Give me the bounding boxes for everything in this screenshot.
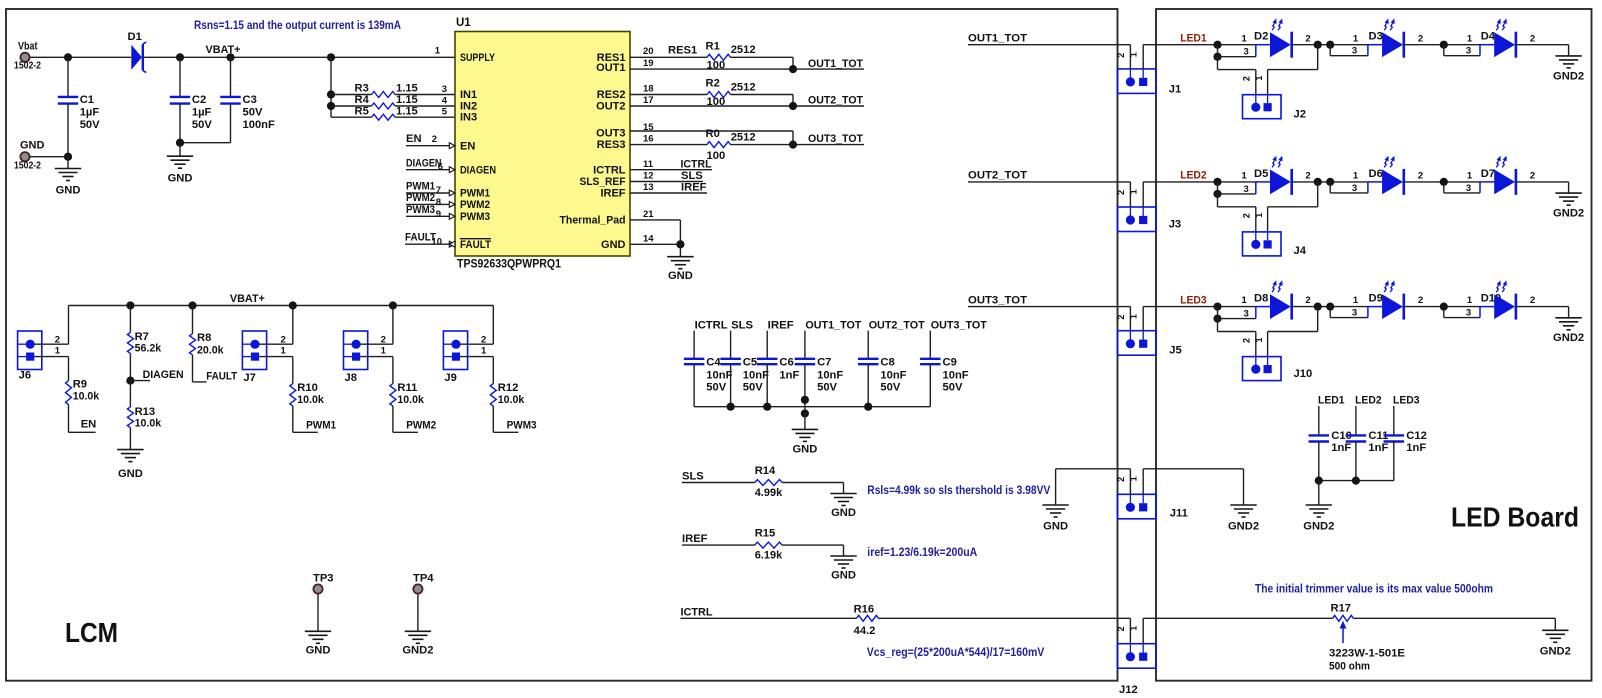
svg-text:J5: J5	[1169, 345, 1181, 357]
svg-text:ICTRL: ICTRL	[681, 606, 713, 618]
svg-text:GND2: GND2	[1553, 332, 1584, 344]
svg-text:IN1: IN1	[460, 89, 477, 101]
svg-text:21: 21	[643, 209, 654, 220]
svg-text:The initial trimmer value is i: The initial trimmer value is its max val…	[1255, 582, 1493, 596]
bypass wires to J4	[1217, 194, 1219, 207]
wire OUT2	[630, 105, 864, 107]
svg-text:3: 3	[1352, 308, 1357, 319]
ground GND cap bank	[804, 407, 806, 430]
svg-text:1502-2: 1502-2	[14, 160, 41, 171]
svg-text:GND: GND	[831, 507, 856, 519]
svg-text:R5: R5	[355, 105, 369, 117]
wire rail to J8	[392, 306, 394, 345]
svg-text:IN2: IN2	[460, 101, 477, 113]
connector J5	[1118, 331, 1157, 356]
svg-text:1.15: 1.15	[396, 94, 418, 106]
junction J7 leg	[289, 301, 297, 309]
wire D9 to D10	[1404, 306, 1480, 308]
resistor R13 10.0k	[129, 381, 131, 407]
wire J11 LED side	[1143, 468, 1243, 470]
svg-text:D4: D4	[1481, 31, 1496, 43]
svg-text:2: 2	[1418, 33, 1423, 44]
resistor R17 trimmer 3223W-1-501E	[1333, 615, 1354, 621]
wire pin3 D6	[1329, 182, 1331, 193]
svg-text:3: 3	[1466, 46, 1471, 57]
wire pin3 D10	[1443, 307, 1445, 318]
svg-text:GND: GND	[306, 644, 331, 656]
svg-text:LED Board: LED Board	[1451, 502, 1579, 533]
connector J8	[344, 331, 368, 370]
net stub DIAGEN bottom	[130, 380, 150, 382]
svg-text:2: 2	[55, 334, 60, 345]
connector J10	[1243, 357, 1282, 381]
svg-text:R17: R17	[1331, 603, 1352, 615]
svg-text:IREF: IREF	[768, 319, 794, 331]
svg-text:SUPPLY: SUPPLY	[460, 52, 496, 64]
svg-text:R9: R9	[73, 378, 87, 390]
J1 pin wires	[1129, 45, 1131, 69]
wire J11 LCM side	[1056, 468, 1131, 470]
svg-text:1: 1	[1353, 171, 1359, 182]
svg-text:IN3: IN3	[460, 112, 477, 124]
svg-text:56.2k: 56.2k	[135, 343, 162, 355]
ground GND under C1	[67, 157, 69, 169]
svg-text:D8: D8	[1254, 293, 1268, 305]
connector J4	[1243, 232, 1282, 256]
svg-text:U1: U1	[456, 17, 471, 29]
svg-text:J1: J1	[1169, 84, 1181, 96]
svg-text:OUT3_TOT: OUT3_TOT	[931, 319, 987, 331]
svg-text:10nF: 10nF	[817, 370, 843, 382]
op-amp U1 TPS92633QPWPRQ1 body	[455, 32, 630, 257]
net stub FAULT bottom	[193, 381, 207, 383]
ground GND under C2	[179, 143, 181, 156]
svg-text:2: 2	[1116, 315, 1126, 320]
svg-text:50V: 50V	[243, 107, 263, 119]
wire D7 to GND2	[1516, 181, 1569, 183]
wire LED1 row main A	[1143, 44, 1256, 46]
svg-text:LCM: LCM	[65, 617, 118, 648]
svg-text:OUT3_TOT: OUT3_TOT	[968, 294, 1027, 306]
svg-text:10.0k: 10.0k	[297, 394, 324, 406]
resistor R2 100 2512	[630, 94, 707, 96]
J8 pin stubs	[361, 343, 393, 345]
net stub FAULT	[405, 243, 455, 245]
svg-text:D3: D3	[1369, 31, 1383, 43]
junction R7	[126, 301, 134, 309]
svg-text:13: 13	[643, 182, 654, 193]
J3 pin wires	[1129, 182, 1131, 207]
wire LED3 row main A	[1143, 306, 1256, 308]
svg-text:1nF: 1nF	[1406, 442, 1426, 454]
svg-text:OUT1_TOT: OUT1_TOT	[808, 58, 863, 70]
svg-text:C1: C1	[80, 94, 94, 106]
svg-text:C7: C7	[817, 357, 831, 369]
svg-text:5: 5	[442, 107, 448, 118]
svg-text:DIAGEN: DIAGEN	[406, 157, 442, 169]
svg-text:GND2: GND2	[1540, 645, 1571, 657]
J7 pin stubs	[259, 343, 292, 345]
junction row A pin3	[1213, 190, 1221, 198]
svg-text:FAULT: FAULT	[206, 371, 237, 383]
svg-text:C12: C12	[1406, 430, 1427, 442]
svg-text:R3: R3	[355, 83, 369, 95]
svg-text:GND: GND	[118, 468, 143, 480]
svg-text:8: 8	[436, 197, 441, 208]
svg-text:2: 2	[1305, 171, 1310, 182]
svg-text:TPS92633QPWPRQ1: TPS92633QPWPRQ1	[457, 257, 561, 271]
ground GND under TP3	[305, 630, 331, 632]
svg-text:DIAGEN: DIAGEN	[143, 369, 184, 381]
wire D5 to D6	[1292, 181, 1368, 183]
ground GND at R14	[843, 483, 845, 494]
resistor R10 10.0k	[292, 357, 294, 384]
capacitor C2	[179, 57, 181, 96]
connector J11	[1118, 494, 1157, 519]
svg-text:GND: GND	[668, 270, 693, 282]
wire Vbat to D1	[30, 56, 132, 58]
svg-text:R7: R7	[135, 331, 149, 343]
resistor R14 4.99k	[755, 480, 783, 486]
svg-text:GND: GND	[792, 443, 817, 455]
svg-text:50V: 50V	[743, 381, 763, 393]
junction C3 top	[226, 53, 234, 61]
svg-text:TP3: TP3	[313, 573, 334, 585]
svg-text:IREF: IREF	[682, 533, 708, 545]
svg-text:2: 2	[432, 134, 437, 145]
svg-text:2: 2	[481, 334, 486, 345]
svg-text:RES3: RES3	[597, 139, 626, 151]
junction IN1	[327, 90, 335, 98]
svg-text:R2: R2	[706, 78, 720, 90]
svg-text:4.99k: 4.99k	[755, 487, 783, 499]
junction row A pin3	[1213, 315, 1221, 323]
svg-text:11: 11	[643, 159, 654, 170]
svg-text:OUT1_TOT: OUT1_TOT	[805, 319, 861, 331]
junction C6 bus	[763, 403, 771, 411]
svg-text:10nF: 10nF	[743, 370, 769, 382]
svg-text:1nF: 1nF	[1331, 442, 1351, 454]
J5 pin wires	[1129, 307, 1131, 331]
net stub PWM2	[406, 203, 455, 205]
terminal GND 1502-2	[20, 152, 29, 161]
svg-text:D9: D9	[1369, 293, 1383, 305]
ground GND2 at J11	[1230, 504, 1256, 506]
svg-text:7: 7	[436, 185, 441, 196]
connector J1	[1118, 69, 1157, 94]
svg-text:J6: J6	[19, 369, 31, 381]
svg-text:D1: D1	[128, 31, 142, 43]
junction DIAGEN	[126, 377, 134, 385]
svg-text:C9: C9	[943, 357, 957, 369]
wire pin3 D2	[1217, 45, 1219, 57]
junction U1 GND	[676, 240, 684, 248]
svg-text:2: 2	[1305, 33, 1310, 44]
svg-text:VBAT+: VBAT+	[206, 44, 241, 56]
svg-text:GND: GND	[168, 172, 193, 184]
svg-text:1nF: 1nF	[1368, 442, 1388, 454]
svg-text:GND2: GND2	[402, 644, 433, 656]
svg-text:19: 19	[643, 58, 654, 69]
diode D1	[131, 45, 142, 70]
svg-text:J8: J8	[345, 372, 357, 384]
svg-text:ICTRL: ICTRL	[593, 164, 626, 176]
svg-text:GND: GND	[601, 239, 626, 251]
svg-text:IREF: IREF	[600, 188, 625, 200]
svg-text:3: 3	[1244, 184, 1249, 195]
svg-text:D6: D6	[1369, 168, 1383, 180]
svg-text:1.15: 1.15	[396, 83, 418, 95]
connector J9	[443, 331, 467, 370]
resistor R5 1.15	[331, 116, 372, 118]
wire D10 to GND2	[1516, 306, 1569, 308]
svg-text:GND2: GND2	[1553, 208, 1584, 220]
svg-text:ICTRL: ICTRL	[695, 319, 728, 331]
svg-text:ICTRL: ICTRL	[681, 158, 712, 170]
svg-text:R15: R15	[755, 527, 776, 539]
svg-text:PWM3: PWM3	[460, 211, 490, 223]
svg-text:500 ohm: 500 ohm	[1329, 661, 1370, 673]
svg-text:1: 1	[1129, 52, 1139, 57]
svg-text:PWM3: PWM3	[507, 420, 537, 432]
svg-text:1: 1	[1254, 213, 1264, 218]
svg-text:3: 3	[1466, 308, 1471, 319]
svg-text:10.0k: 10.0k	[73, 391, 100, 403]
svg-text:20.0k: 20.0k	[197, 344, 224, 356]
resistor R11 10.0k	[392, 357, 394, 384]
J12 pin wires	[1129, 618, 1131, 643]
svg-text:Rsls=4.99k so sls thershold is: Rsls=4.99k so sls thershold is 3.98VV	[867, 483, 1050, 497]
net stub DIAGEN	[406, 169, 455, 171]
svg-text:Rsns=1.15 and the output curre: Rsns=1.15 and the output current is 139m…	[194, 18, 401, 32]
resistor R4 1.15	[331, 105, 372, 107]
J6 pin stubs	[35, 343, 69, 345]
svg-text:SLS_REF: SLS_REF	[580, 176, 626, 188]
svg-text:OUT1: OUT1	[596, 62, 625, 74]
svg-text:TP4: TP4	[413, 573, 434, 585]
svg-text:18: 18	[643, 84, 654, 95]
junction D10 pin3	[1440, 303, 1448, 311]
svg-text:GND2: GND2	[1228, 520, 1259, 532]
junction C10 bus	[1315, 477, 1323, 485]
svg-text:C3: C3	[243, 94, 257, 106]
svg-text:1: 1	[1129, 476, 1139, 481]
junction D9 pin3	[1326, 303, 1334, 311]
svg-text:1µF: 1µF	[192, 107, 212, 119]
svg-text:LED2: LED2	[1180, 170, 1207, 182]
svg-text:2: 2	[1116, 626, 1126, 631]
svg-text:50V: 50V	[943, 381, 963, 393]
wire U1 GND pin	[630, 243, 680, 245]
svg-text:2: 2	[1241, 76, 1251, 81]
svg-text:PWM2: PWM2	[460, 199, 490, 211]
wire LED2 row main A	[1143, 181, 1256, 183]
junction C1 top	[64, 53, 72, 61]
junction J8 leg	[389, 301, 397, 309]
wire D4 to GND2	[1516, 44, 1569, 46]
wire pin3 D4	[1443, 45, 1445, 56]
wire J12 to R17	[1143, 617, 1332, 619]
svg-text:2: 2	[1116, 53, 1126, 58]
connector J2	[1243, 95, 1282, 119]
svg-text:C2: C2	[192, 94, 206, 106]
svg-text:PWM2: PWM2	[406, 192, 435, 204]
resistor R12 10.0k	[492, 357, 494, 384]
svg-text:GND: GND	[831, 570, 856, 582]
svg-text:J3: J3	[1169, 219, 1181, 231]
net stub SLS at U1	[630, 181, 703, 183]
svg-text:GND: GND	[1043, 520, 1068, 532]
junction D7 pin3	[1440, 178, 1448, 186]
svg-text:1: 1	[1129, 189, 1139, 194]
junction OUT2_TOT	[789, 102, 797, 110]
svg-text:1502-2: 1502-2	[14, 61, 41, 72]
svg-text:DIAGEN: DIAGEN	[460, 164, 496, 176]
svg-text:R14: R14	[755, 465, 776, 477]
wire D1 to U1 SUPPLY	[143, 56, 455, 58]
net stub IREF at U1	[630, 192, 707, 194]
connector J7	[242, 331, 266, 370]
svg-text:OUT2_TOT: OUT2_TOT	[808, 95, 863, 107]
junction bypass right	[1314, 178, 1322, 186]
J9 pin stubs	[460, 343, 493, 345]
svg-text:1µF: 1µF	[80, 107, 100, 119]
test point TP4	[413, 584, 422, 593]
svg-text:2: 2	[1305, 295, 1310, 306]
junction D6 pin3	[1326, 178, 1334, 186]
svg-text:PWM1: PWM1	[460, 188, 490, 200]
wire rail to J7	[292, 306, 294, 345]
LED board outline	[1156, 9, 1592, 681]
svg-text:J4: J4	[1294, 245, 1307, 257]
junction C7 below bus	[801, 409, 809, 417]
svg-text:1: 1	[1254, 76, 1264, 81]
resistor R16 44.2	[857, 615, 879, 621]
svg-text:C6: C6	[779, 357, 793, 369]
wire cap bank bus	[694, 406, 930, 408]
junction OUT1_TOT	[789, 65, 797, 73]
net stub PWM3	[406, 215, 455, 217]
junction C7 above bus	[801, 396, 809, 404]
svg-text:J10: J10	[1294, 368, 1313, 380]
svg-text:2: 2	[1530, 171, 1535, 182]
svg-text:2: 2	[1116, 477, 1126, 482]
svg-text:1nF: 1nF	[779, 370, 799, 382]
svg-text:2: 2	[1530, 295, 1535, 306]
svg-text:SLS: SLS	[731, 319, 754, 331]
ground GND2 row LED3	[1555, 317, 1581, 319]
svg-text:Thermal_Pad: Thermal_Pad	[560, 215, 626, 227]
ground GND at U1	[679, 244, 681, 256]
ground GND2 row LED1	[1555, 55, 1581, 57]
svg-text:1.15: 1.15	[396, 105, 418, 117]
capacitor C3	[230, 57, 232, 96]
svg-text:iref=1.23/6.19k=200uA: iref=1.23/6.19k=200uA	[867, 545, 977, 559]
svg-text:10nF: 10nF	[880, 370, 906, 382]
svg-text:50V: 50V	[817, 381, 837, 393]
svg-text:OUT2_TOT: OUT2_TOT	[968, 170, 1027, 182]
junction IN branch	[327, 53, 335, 61]
svg-text:3223W-1-501E: 3223W-1-501E	[1329, 648, 1406, 660]
svg-text:LED1: LED1	[1180, 32, 1207, 44]
svg-text:17: 17	[643, 95, 654, 106]
ground GND at J11	[1042, 504, 1068, 506]
J11 pin wires	[1129, 469, 1131, 495]
junction C1 bottom	[64, 153, 72, 161]
wire D6 to D7	[1404, 181, 1480, 183]
wire ICTRL to J12	[681, 617, 857, 619]
svg-text:EN: EN	[460, 140, 475, 152]
svg-text:1: 1	[435, 46, 441, 57]
svg-text:3: 3	[442, 84, 447, 95]
resistor R3 1.15	[331, 94, 372, 96]
svg-text:2: 2	[381, 334, 386, 345]
svg-text:10nF: 10nF	[706, 370, 732, 382]
svg-text:R4: R4	[355, 94, 370, 106]
net stub PWM1	[406, 192, 455, 194]
wire pin3 D8	[1217, 307, 1219, 319]
svg-text:OUT2: OUT2	[596, 101, 625, 113]
net stub EN bottom	[69, 431, 96, 433]
svg-text:1: 1	[1129, 314, 1139, 319]
connector J12	[1118, 644, 1157, 669]
svg-text:1: 1	[1242, 33, 1248, 44]
svg-text:1: 1	[1242, 171, 1248, 182]
svg-text:2: 2	[281, 334, 286, 345]
svg-text:OUT3: OUT3	[596, 127, 625, 139]
wire C10-C12 bus	[1319, 480, 1394, 482]
svg-text:2: 2	[1530, 33, 1535, 44]
svg-text:R13: R13	[135, 406, 156, 418]
svg-text:GND: GND	[20, 140, 45, 152]
svg-text:FAULT: FAULT	[460, 239, 491, 251]
wire pin3 D3	[1329, 45, 1331, 56]
svg-text:100nF: 100nF	[243, 119, 275, 131]
svg-text:GND2: GND2	[1303, 520, 1334, 532]
svg-text:Vcs_reg=(25*200uA*544)/17=160m: Vcs_reg=(25*200uA*544)/17=160mV	[867, 645, 1045, 659]
svg-text:LED3: LED3	[1393, 395, 1420, 407]
svg-text:6.19k: 6.19k	[755, 549, 783, 561]
svg-text:LED2: LED2	[1355, 395, 1382, 407]
svg-text:1: 1	[1242, 295, 1248, 306]
svg-text:D7: D7	[1481, 168, 1495, 180]
svg-text:50V: 50V	[80, 119, 100, 131]
svg-text:C4: C4	[706, 357, 721, 369]
wire OUT3	[630, 130, 793, 132]
svg-text:SLS: SLS	[682, 470, 704, 482]
net stub PWM2	[393, 431, 418, 433]
svg-text:LED1: LED1	[1318, 395, 1345, 407]
svg-text:IREF: IREF	[681, 182, 707, 194]
svg-text:Vbat: Vbat	[18, 41, 38, 53]
svg-text:2: 2	[1116, 190, 1126, 195]
svg-text:J7: J7	[243, 372, 255, 384]
connector J6	[18, 331, 42, 370]
svg-text:12: 12	[643, 171, 654, 182]
test point TP3	[313, 584, 322, 593]
svg-text:2512: 2512	[731, 132, 756, 144]
svg-text:R1: R1	[706, 40, 720, 52]
svg-text:3: 3	[1352, 183, 1357, 194]
svg-text:C5: C5	[743, 357, 757, 369]
resistor R8 20.0k	[192, 306, 194, 334]
wire pin3 D7	[1443, 182, 1445, 193]
svg-text:OUT3_TOT: OUT3_TOT	[808, 133, 863, 145]
junction R8	[188, 301, 196, 309]
svg-text:14: 14	[643, 233, 654, 244]
svg-text:1: 1	[1353, 33, 1359, 44]
svg-text:R10: R10	[297, 382, 318, 394]
